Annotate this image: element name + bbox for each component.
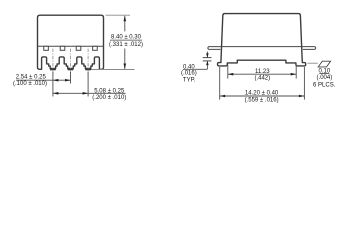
front view lead slot square 2 [60, 46, 65, 50]
svg-text:(.100 ± .010): (.100 ± .010) [13, 81, 47, 87]
svg-text:(.004): (.004) [317, 75, 333, 81]
svg-text:TYP.: TYP. [183, 78, 196, 84]
svg-text:5.08 ± 0.25: 5.08 ± 0.25 [94, 88, 125, 94]
extension line 14.20 left [219, 67, 221, 100]
extension line seating plane front view [91, 69, 135, 71]
svg-text:(.200 ± .010): (.200 ± .010) [92, 95, 126, 101]
extension line 11.23 left [227, 65, 229, 79]
seating plane leader side view [308, 62, 318, 64]
front view lead slot square 1 [44, 46, 49, 50]
arrowhead 5.08 right [83, 92, 89, 95]
standoff reference line upper [203, 57, 212, 59]
centerline pin 1 [52, 49, 54, 76]
arrow 0.40 up [206, 61, 208, 69]
dimension line 14.20 [220, 95, 305, 97]
extension line pin 3 [87, 72, 89, 97]
flatness parallelogram symbol [318, 61, 330, 67]
dimension line 11.23 [228, 73, 296, 75]
dimension line 5.08 pitch [53, 92, 126, 94]
foot 2 solder foot [68, 68, 74, 70]
fraction bar 8.40 [110, 39, 142, 41]
relay body front view outline [38, 15, 104, 69]
arrowhead 8.40 up [124, 16, 127, 21]
side view right gull-wing lead [303, 47, 316, 50]
relay body side view outline [218, 14, 306, 66]
side view left gull-wing lead [208, 47, 221, 50]
extension line body top right [106, 14, 131, 16]
arrowhead 2.54 right [65, 79, 71, 82]
arrow 0.40 down [206, 52, 208, 58]
front view lead slot square 3 [76, 46, 81, 50]
svg-text:14.20 ± 0.40: 14.20 ± 0.40 [245, 91, 279, 97]
arrowhead 8.40 down [124, 64, 127, 70]
extension line pin 1 [52, 72, 54, 97]
svg-text:(.442): (.442) [254, 76, 270, 82]
svg-text:(.331 ± .012): (.331 ± .012) [109, 42, 143, 48]
front view seam line [38, 45, 104, 47]
extension line pin 2 [70, 72, 72, 84]
svg-text:(.016): (.016) [181, 71, 197, 77]
dimension line 8.40 height lower segment [124, 49, 126, 70]
arrowhead 5.08 left [53, 92, 59, 95]
svg-text:11.23: 11.23 [255, 69, 270, 75]
foot 3 solder foot [85, 68, 91, 70]
front view lead slot square 4 [93, 46, 98, 50]
side view seam line [221, 46, 303, 48]
extension line 11.23 right [295, 65, 297, 79]
arrowhead 14.20 left [220, 95, 226, 98]
extension line 14.20 right [303, 67, 305, 100]
arrowhead 11.23 left [228, 73, 234, 76]
foot 1 solder foot [50, 68, 56, 70]
centerline pin 3 [87, 49, 89, 76]
svg-text:2.54 ± 0.25: 2.54 ± 0.25 [16, 75, 47, 81]
dimension line 2.54 pitch [16, 79, 71, 81]
standoff reference line lower [203, 60, 212, 62]
svg-text:6 PLCS.: 6 PLCS. [313, 82, 336, 88]
arrowhead 11.23 right [291, 73, 297, 76]
leader 0.40 [194, 68, 207, 70]
centerline pin 2 [70, 49, 72, 76]
dimension line 8.40 height upper segment [124, 16, 126, 32]
arrowhead 14.20 right [299, 95, 305, 98]
svg-text:(.559 ± .016): (.559 ± .016) [245, 97, 279, 103]
arrowhead 2.54 left [53, 79, 59, 82]
